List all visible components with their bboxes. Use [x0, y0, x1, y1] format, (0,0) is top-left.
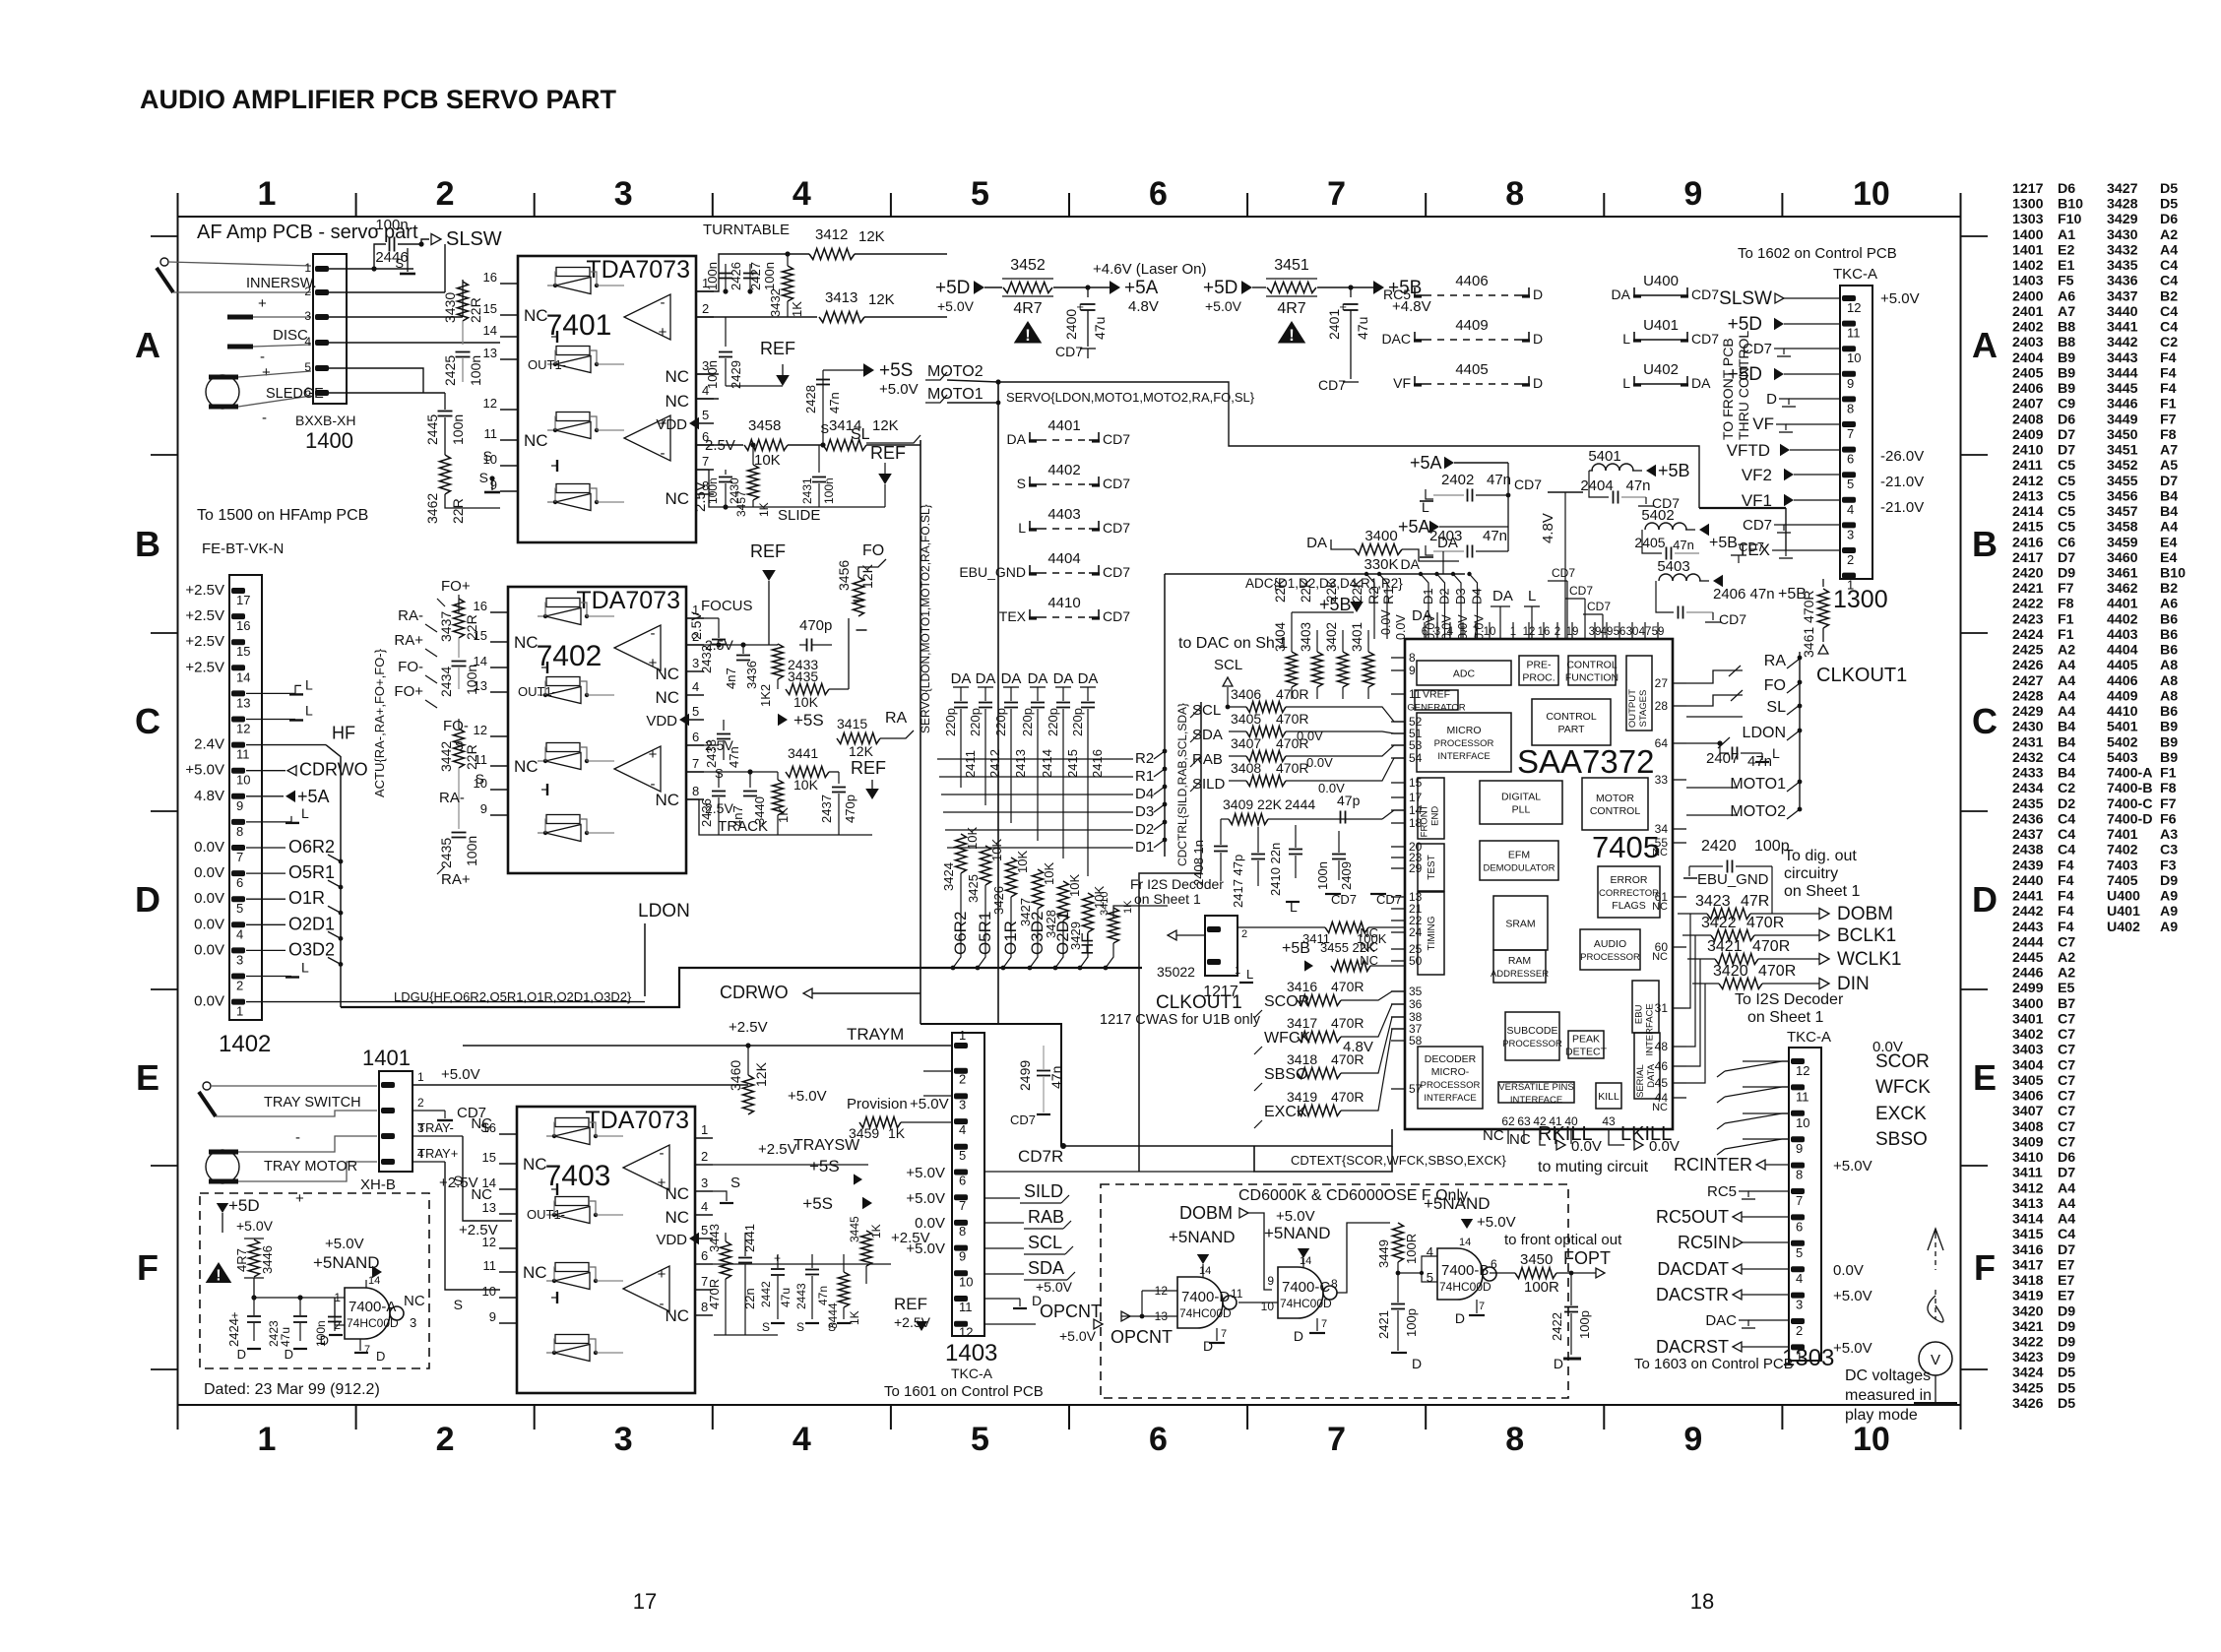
pin 15 of connector 1402 [231, 639, 245, 645]
wire pin2 rail [696, 316, 817, 318]
svg-text:+: + [262, 364, 271, 381]
wires from SAA serial pins [1686, 935, 1695, 1047]
svg-text:RCINTER: RCINTER [1674, 1155, 1752, 1175]
svg-text:S: S [796, 1320, 804, 1334]
resistor 3412 12K [809, 249, 855, 260]
svg-text:470R: 470R [1331, 1089, 1364, 1105]
svg-text:measured in: measured in [1845, 1387, 1932, 1404]
capacitor 100n [328, 1316, 342, 1318]
svg-text:3400: 3400 [1364, 528, 1397, 544]
capacitor 2445 100n [438, 411, 453, 413]
svg-text:45: 45 [1655, 1076, 1669, 1090]
svg-text:1: 1 [236, 1004, 243, 1019]
pin 1 of connector 1400 [315, 266, 329, 272]
svg-text:+5S: +5S [793, 711, 824, 730]
grid tick [151, 988, 177, 990]
svg-text:AUDIO: AUDIO [1594, 938, 1626, 950]
svg-text:NC: NC [665, 489, 689, 508]
svg-text:+: + [649, 746, 658, 763]
resistor 3429 10K [1083, 893, 1094, 932]
svg-text:REF: REF [870, 443, 906, 463]
svg-text:11: 11 [1231, 1287, 1243, 1301]
svg-text:D: D [135, 879, 160, 920]
ground inside pin10 [551, 465, 557, 467]
svg-text:4.8V: 4.8V [1128, 298, 1159, 315]
svg-text:D3: D3 [1453, 588, 1468, 604]
svg-text:6: 6 [959, 1174, 966, 1188]
svg-text:100n: 100n [705, 262, 720, 290]
svg-text:5: 5 [1796, 1245, 1803, 1260]
svg-text:SRAM: SRAM [1505, 919, 1535, 930]
pin 16 [499, 1133, 517, 1135]
svg-text:10: 10 [1853, 1421, 1890, 1458]
vertical bus right [1799, 652, 1801, 811]
pin 2 [696, 316, 714, 318]
svg-text:22R: 22R [468, 297, 483, 323]
svg-text:47u: 47u [1355, 317, 1370, 340]
svg-text:NC: NC [655, 665, 679, 683]
net DIN [1762, 983, 1819, 985]
capacitor 2438 47n [723, 720, 725, 731]
resistor 3459 1K [859, 1117, 901, 1128]
svg-text:7: 7 [1221, 1328, 1227, 1340]
pin 3 of connector 1400 [315, 314, 329, 320]
svg-text:3426: 3426 [991, 886, 1006, 915]
svg-text:DA: DA [1001, 670, 1022, 687]
svg-text:13: 13 [483, 346, 497, 360]
svg-text:8: 8 [1331, 1277, 1338, 1291]
svg-text:NC: NC [1509, 1131, 1531, 1148]
svg-text:C: C [135, 701, 160, 741]
svg-text:7: 7 [236, 850, 243, 864]
pin 10 of connector 1303 [1791, 1111, 1805, 1116]
svg-text:4402: 4402 [1047, 462, 1080, 478]
svg-text:PEAK: PEAK [1572, 1034, 1600, 1046]
resistor 3427 10K [1033, 869, 1044, 909]
pin 1 [686, 617, 704, 619]
svg-text:7400-A: 7400-A [349, 1299, 396, 1315]
pin 1 [696, 290, 714, 292]
resistor 3444 1K [839, 1272, 850, 1307]
svg-text:1: 1 [959, 1028, 966, 1043]
svg-text:+5D: +5D [228, 1196, 260, 1215]
functional block DECODER [1418, 1047, 1483, 1109]
wire MOTO2 right [1686, 814, 1738, 816]
net O3D2 pin3 [246, 949, 286, 951]
capacitor 4n7 3436 [742, 645, 744, 654]
svg-text:17: 17 [1409, 791, 1423, 804]
net O5R1 pin6 [246, 872, 286, 874]
svg-text:REF: REF [894, 1295, 927, 1313]
resistor 3443 470R [721, 1241, 731, 1279]
svg-text:+5B: +5B [1658, 461, 1690, 480]
pin 11 of connector 1403 [954, 1296, 968, 1302]
wire pin2 1400 [329, 291, 445, 293]
functional block EBU INTERFACE [1632, 981, 1659, 1033]
svg-text:12K: 12K [872, 417, 899, 434]
svg-text:NC: NC [523, 1263, 547, 1282]
svg-text:E: E [136, 1057, 159, 1098]
capacitor 2429 100n [725, 317, 727, 347]
svg-text:O6R2: O6R2 [288, 837, 335, 857]
svg-text:to muting circuit: to muting circuit [1538, 1159, 1649, 1175]
svg-text:To 1500 on HFAmp PCB: To 1500 on HFAmp PCB [197, 507, 368, 524]
svg-text:EFM: EFM [1508, 850, 1530, 861]
svg-text:47n: 47n [1487, 472, 1511, 488]
svg-text:470R: 470R [1746, 915, 1784, 931]
pin 11 [499, 1271, 517, 1273]
svg-text:+2.5V: +2.5V [459, 1222, 498, 1239]
svg-text:S: S [480, 1119, 489, 1135]
svg-text:NC: NC [524, 306, 548, 325]
resistor 3460 12K [743, 1075, 754, 1114]
svg-text:7: 7 [959, 1198, 966, 1213]
svg-text:RA: RA [885, 710, 908, 727]
svg-text:SDA: SDA [1028, 1258, 1064, 1278]
svg-text:A: A [1972, 325, 1998, 365]
svg-text:CD7: CD7 [1587, 600, 1611, 613]
pin 4 of connector 1401 [381, 1159, 395, 1165]
pin 6 of connector 1400 [315, 390, 329, 396]
svg-text:10: 10 [1796, 1115, 1809, 1130]
ground measurement [1935, 1375, 1936, 1402]
pin 5 of connector 1300 [1842, 472, 1856, 477]
resistor 3437 22R [458, 595, 460, 612]
net SLSW [418, 241, 423, 246]
wire pin4 1400 [329, 342, 500, 344]
internal amplifier cell 2 of 7403 [555, 1197, 589, 1206]
svg-text:To 1603 on Control PCB: To 1603 on Control PCB [1634, 1356, 1794, 1372]
pin 4 [696, 398, 714, 400]
wire MOTO1 right [1686, 787, 1738, 789]
svg-text:to front optical out: to front optical out [1504, 1232, 1622, 1248]
svg-text:18: 18 [1690, 1589, 1714, 1614]
svg-text:2437: 2437 [819, 794, 834, 823]
functional block AUDIO [1580, 929, 1640, 970]
svg-text:CDCTRL{SILD,RAB,SCL,SDA}: CDCTRL{SILD,RAB,SCL,SDA} [1175, 703, 1189, 866]
svg-text:+5NAND: +5NAND [1424, 1194, 1491, 1213]
svg-text:D2: D2 [1135, 821, 1154, 838]
svg-text:12K: 12K [849, 743, 874, 759]
pin 13 [490, 691, 508, 693]
svg-text:PLL: PLL [1512, 804, 1531, 816]
svg-text:S: S [730, 1175, 740, 1191]
svg-text:14: 14 [1300, 1255, 1311, 1267]
svg-text:GENERATOR: GENERATOR [1407, 703, 1465, 714]
svg-text:10K: 10K [1042, 862, 1056, 885]
wire track rail [686, 744, 719, 746]
svg-text:0.0V: 0.0V [915, 1215, 945, 1232]
svg-text:1K: 1K [869, 1224, 883, 1239]
grid tick [151, 632, 177, 634]
pin 9 of connector 1300 [1842, 371, 1856, 377]
pin 10 [490, 789, 508, 791]
svg-text:MOTO2: MOTO2 [927, 363, 984, 380]
svg-text:100n: 100n [1315, 861, 1330, 890]
svg-text:16: 16 [483, 270, 497, 285]
svg-text:TRAY+: TRAY+ [417, 1146, 458, 1161]
svg-text:L: L [305, 703, 313, 719]
resistor 3426 10K [1006, 858, 1017, 897]
internal amplifier cell 4 of 7402 [546, 815, 580, 824]
svg-text:4: 4 [959, 1122, 966, 1137]
svg-text:TDA7073: TDA7073 [586, 256, 690, 284]
capacitor 2405 47n [1642, 530, 1662, 553]
svg-text:PRE-: PRE- [1526, 660, 1552, 671]
functional block TEST [1418, 844, 1444, 891]
svg-text:CD7R: CD7R [1018, 1147, 1063, 1166]
capacitor 4n7 3440 [749, 772, 751, 788]
pin 14 [500, 336, 518, 338]
svg-text:R1: R1 [1135, 768, 1154, 785]
resistor 3449 100R [1393, 1223, 1404, 1262]
svg-text:RA-: RA- [439, 790, 465, 806]
svg-text:REF: REF [760, 339, 795, 358]
svg-text:DIGITAL: DIGITAL [1501, 792, 1541, 803]
svg-text:D4: D4 [1470, 588, 1485, 604]
svg-text:8: 8 [1796, 1168, 1803, 1182]
svg-text:CD7: CD7 [1691, 286, 1719, 302]
svg-text:5401: 5401 [1588, 448, 1620, 465]
svg-text:L: L [1528, 588, 1536, 604]
svg-text:31: 31 [1655, 1001, 1669, 1015]
svg-text:EBU_GND: EBU_GND [959, 564, 1026, 580]
svg-text:2432: 2432 [699, 645, 714, 673]
svg-text:DA: DA [1053, 670, 1074, 687]
svg-text:Fr I2S Decoder: Fr I2S Decoder [1130, 876, 1224, 892]
svg-text:3412: 3412 [815, 226, 848, 243]
functional block SRAM [1493, 896, 1548, 950]
svg-text:+2.5V: +2.5V [185, 633, 224, 650]
svg-text:D: D [1533, 286, 1543, 302]
svg-text:2421: 2421 [1376, 1310, 1391, 1339]
svg-text:470p: 470p [799, 617, 832, 634]
svg-text:9: 9 [489, 1309, 496, 1324]
net HF wire [1113, 906, 1168, 919]
svg-text:4.8V: 4.8V [1343, 1039, 1373, 1055]
svg-text:2431: 2431 [800, 477, 814, 504]
svg-text:NC: NC [1483, 1127, 1504, 1144]
svg-text:0.0V: 0.0V [1456, 614, 1470, 640]
capacitor 2421 100p [1391, 1303, 1405, 1305]
svg-text:FOCUS: FOCUS [701, 598, 753, 614]
wire pin1 1400 [329, 268, 413, 270]
svg-text:2412: 2412 [987, 749, 1002, 778]
pin 11 of connector 1300 [1842, 321, 1856, 327]
power +5B arrow [1373, 281, 1384, 294]
svg-text:+5B: +5B [1709, 535, 1738, 551]
svg-text:CD7: CD7 [1739, 540, 1764, 554]
svg-text:2: 2 [304, 285, 311, 298]
svg-text:D: D [1972, 879, 1998, 920]
svg-text:5: 5 [702, 408, 709, 422]
svg-text:3422: 3422 [1701, 915, 1737, 931]
svg-text:FO-: FO- [398, 659, 423, 675]
svg-text:NC: NC [1652, 901, 1668, 913]
pin 5 [696, 422, 714, 424]
driver IC 7401 TDA7073 box [518, 256, 696, 542]
internal amplifier cell 3 of 7402 [546, 743, 580, 752]
svg-text:CD7: CD7 [1055, 344, 1083, 359]
svg-text:TKC-A: TKC-A [951, 1366, 993, 1381]
wire RA [1686, 670, 1743, 683]
svg-text:47u: 47u [779, 1288, 793, 1307]
functional block TIMING [1418, 892, 1444, 975]
svg-text:PART: PART [1557, 724, 1585, 735]
svg-text:16: 16 [236, 618, 250, 633]
pin 16 [490, 611, 508, 613]
svg-text:7: 7 [1479, 1301, 1485, 1312]
svg-text:46: 46 [1655, 1059, 1669, 1073]
svg-text:0.0V: 0.0V [1440, 614, 1454, 640]
svg-text:220p: 220p [1020, 708, 1035, 736]
svg-text:8: 8 [692, 784, 699, 798]
svg-text:2406 47n: 2406 47n [1713, 586, 1775, 603]
svg-text:-: - [260, 349, 265, 365]
svg-text:RC5: RC5 [1707, 1183, 1737, 1200]
svg-text:1: 1 [304, 261, 311, 275]
svg-text:LDGU{HF,O6R2,O5R1,O1R,O2D1,O3D: LDGU{HF,O6R2,O5R1,O1R,O2D1,O3D2} [394, 989, 632, 1004]
svg-text:10: 10 [482, 1284, 496, 1299]
svg-text:12: 12 [236, 722, 250, 736]
resistor 3410 1K [1109, 908, 1119, 943]
svg-text:SERVO{LDON,MOTO1,MOTO2,RA,FO.S: SERVO{LDON,MOTO1,MOTO2,RA,FO.SL} [919, 504, 932, 733]
pin 8 [686, 798, 704, 800]
driver IC 7402 TDA7073 box [508, 587, 686, 873]
svg-text:12K: 12K [868, 291, 895, 308]
svg-text:6: 6 [236, 875, 243, 890]
svg-text:2.4V: 2.4V [194, 736, 224, 753]
pin 10 of connector 1403 [954, 1270, 968, 1276]
resistor 3457 1K [748, 465, 759, 500]
svg-text:47u: 47u [279, 1327, 292, 1347]
svg-text:28: 28 [1655, 699, 1669, 713]
svg-text:100n: 100n [464, 836, 479, 866]
internal amplifier cell 3 of 7401 [556, 413, 590, 421]
wire turntable top [696, 254, 809, 291]
svg-text:-: - [660, 1296, 665, 1312]
svg-text:3405: 3405 [1231, 711, 1261, 727]
pin 1 of connector 1403 [954, 1043, 968, 1048]
svg-text:7400-C: 7400-C [1282, 1279, 1330, 1296]
svg-text:DAC: DAC [1705, 1312, 1737, 1329]
svg-text:2401: 2401 [1326, 309, 1342, 340]
internal amplifier cell 3 of 7403 [555, 1263, 589, 1272]
svg-text:220p: 220p [943, 708, 958, 736]
svg-text:15: 15 [483, 301, 497, 316]
svg-text:100n: 100n [450, 414, 466, 445]
svg-text:3410: 3410 [1099, 892, 1110, 916]
svg-text:VF1: VF1 [1742, 491, 1772, 510]
pin 2 of connector 1402 [231, 974, 245, 980]
svg-text:CD7: CD7 [1103, 608, 1130, 624]
svg-text:2: 2 [436, 1421, 455, 1458]
svg-text:SUBCODE: SUBCODE [1507, 1025, 1558, 1037]
svg-text:+2.5V: +2.5V [729, 1019, 768, 1036]
svg-text:4406: 4406 [1455, 273, 1488, 289]
svg-text:+5.0V: +5.0V [1833, 1158, 1872, 1175]
svg-text:to DAC on Sh 1: to DAC on Sh 1 [1178, 635, 1288, 652]
svg-text:+5.0V: +5.0V [910, 1096, 949, 1112]
grid tick [712, 193, 714, 217]
svg-text:57: 57 [1409, 1082, 1423, 1096]
svg-text:1403: 1403 [945, 1340, 997, 1366]
svg-text:PROCESSOR: PROCESSOR [1580, 952, 1640, 963]
svg-text:EBU_GND: EBU_GND [1697, 871, 1769, 888]
svg-text:PROCESSOR: PROCESSOR [1434, 738, 1494, 749]
svg-text:0.0V: 0.0V [194, 941, 224, 958]
svg-text:D1: D1 [1421, 588, 1435, 604]
svg-text:0.0V: 0.0V [1872, 1039, 1903, 1055]
svg-text:100n: 100n [762, 262, 777, 290]
output power amplifier A of 7402 [614, 625, 661, 670]
pin 9 of connector 1303 [1791, 1136, 1805, 1142]
output power amplifier A of 7403 [623, 1145, 669, 1190]
svg-text:100p: 100p [1404, 1308, 1419, 1337]
resistor 3415 12K [837, 733, 880, 744]
pin 13 [500, 358, 518, 360]
svg-text:8: 8 [236, 824, 243, 839]
svg-text:RAB: RAB [1192, 751, 1223, 768]
svg-text:11: 11 [483, 1258, 497, 1273]
pin 3 of connector 1401 [381, 1133, 395, 1139]
svg-text:12: 12 [1796, 1063, 1809, 1078]
grid tick [1068, 193, 1070, 217]
svg-text:RC5OUT: RC5OUT [1656, 1207, 1729, 1227]
svg-text:2: 2 [959, 1072, 966, 1087]
svg-text:SBSO: SBSO [1264, 1066, 1307, 1083]
svg-text:DA: DA [1412, 607, 1432, 624]
svg-text:7: 7 [702, 454, 709, 469]
svg-text:WFCK: WFCK [1875, 1077, 1931, 1098]
svg-text:2413: 2413 [1013, 749, 1028, 778]
svg-text:2444: 2444 [1285, 796, 1315, 812]
svg-text:4401: 4401 [1047, 417, 1080, 434]
svg-text:S: S [454, 1173, 463, 1188]
svg-text:D1: D1 [1135, 839, 1154, 856]
svg-text:5: 5 [971, 1421, 989, 1458]
pin 2 [686, 644, 704, 646]
warning triangle [1014, 321, 1043, 344]
svg-text:100n: 100n [464, 665, 479, 695]
svg-text:10K: 10K [1067, 874, 1082, 897]
svg-text:-: - [661, 445, 666, 462]
svg-text:!: ! [1025, 327, 1031, 345]
svg-text:DA: DA [951, 670, 972, 687]
capacitor 2432 [718, 618, 720, 638]
svg-text:L: L [305, 676, 313, 692]
svg-text:EXCK: EXCK [1264, 1104, 1307, 1120]
svg-text:9: 9 [1847, 376, 1854, 391]
svg-text:3450: 3450 [1520, 1251, 1553, 1268]
resistor 1K 3440 [773, 780, 784, 815]
svg-text:NC: NC [1360, 939, 1378, 954]
svg-text:4410: 4410 [1047, 595, 1080, 611]
power +5A arrow [1110, 281, 1120, 294]
grid tick [1781, 193, 1783, 217]
svg-text:3441: 3441 [788, 745, 818, 761]
resistor 3441 10K [786, 767, 829, 778]
svg-text:48: 48 [1655, 1040, 1669, 1053]
svg-text:9: 9 [490, 477, 497, 492]
svg-text:+5.0V: +5.0V [1477, 1214, 1516, 1231]
svg-text:4: 4 [236, 926, 243, 941]
svg-text:+2.5V: +2.5V [894, 1314, 931, 1330]
svg-text:D: D [1294, 1328, 1303, 1344]
svg-text:47n: 47n [816, 1286, 830, 1305]
svg-text:TDA7073: TDA7073 [585, 1107, 689, 1134]
svg-text:+5.0V: +5.0V [906, 1240, 945, 1257]
